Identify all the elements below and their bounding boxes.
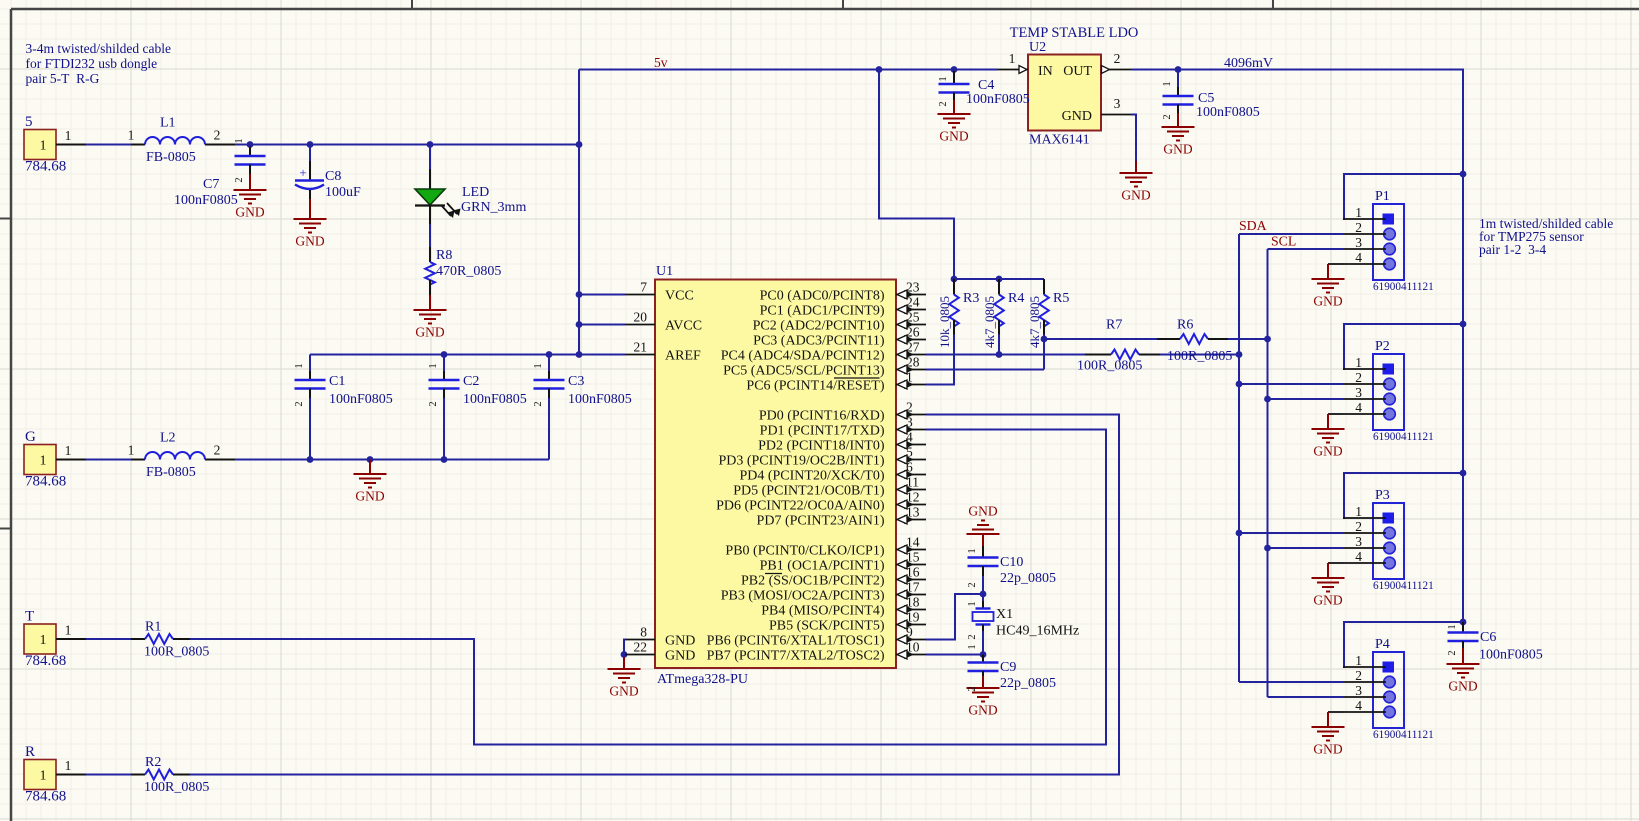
- svg-text:1: 1: [1355, 355, 1362, 370]
- U1 pin 25 PC2: [896, 324, 926, 326]
- svg-text:C7: C7: [203, 177, 219, 192]
- svg-text:1: 1: [1355, 653, 1362, 668]
- ground for C7: [234, 178, 267, 204]
- svg-text:100nF0805: 100nF0805: [1479, 648, 1543, 663]
- svg-text:16: 16: [906, 565, 920, 580]
- svg-text:2: 2: [1114, 51, 1121, 66]
- svg-text:PB6 (PCINT6/XTAL1/TOSC1): PB6 (PCINT6/XTAL1/TOSC1): [707, 634, 885, 649]
- svg-text:TEMP STABLE LDO: TEMP STABLE LDO: [1010, 25, 1139, 41]
- svg-text:4k7_0805: 4k7_0805: [982, 296, 997, 348]
- U1 pin 12 PD6: [896, 504, 926, 506]
- svg-text:GND: GND: [1313, 742, 1342, 757]
- svg-text:AVCC: AVCC: [665, 318, 702, 333]
- svg-text:4: 4: [906, 430, 913, 445]
- junction at 1463,174: [1460, 171, 1467, 178]
- capacitor C5 100nF0805: [1177, 87, 1179, 96]
- svg-text:22: 22: [634, 640, 648, 655]
- svg-text:OUT: OUT: [1063, 64, 1092, 79]
- svg-text:GRN_3mm: GRN_3mm: [461, 200, 526, 215]
- svg-text:4: 4: [1355, 400, 1362, 415]
- svg-text:PB3 (MOSI/OC2A/PCINT3): PB3 (MOSI/OC2A/PCINT3): [721, 589, 885, 604]
- wire G row ground rail: [235, 459, 549, 461]
- svg-text:24: 24: [906, 295, 920, 310]
- svg-text:R: R: [25, 744, 35, 760]
- junction at 579,294.5: [576, 291, 583, 298]
- svg-text:100uF: 100uF: [325, 185, 361, 200]
- junction at 999,354.5: [996, 351, 1003, 358]
- svg-text:2: 2: [1447, 650, 1458, 655]
- junction at 1463,473: [1460, 470, 1467, 477]
- svg-text:X1: X1: [996, 607, 1013, 622]
- wire G row to L2: [86, 459, 131, 461]
- wire SCL node to R6: [1043, 339, 1045, 370]
- svg-text:1: 1: [906, 370, 913, 385]
- svg-text:1: 1: [128, 443, 135, 458]
- resistor R4 4k7_0805: [998, 279, 1000, 295]
- U1 pin 26 PC3: [896, 339, 926, 341]
- U1 pin 28 PC5: [896, 369, 926, 371]
- ground for C4: [938, 102, 971, 128]
- wire C2 stubs: [443, 355, 445, 372]
- svg-text:R4: R4: [1008, 291, 1024, 306]
- svg-text:100R_0805: 100R_0805: [144, 645, 209, 660]
- svg-text:1: 1: [967, 644, 978, 649]
- junction at 954,279: [951, 276, 958, 283]
- svg-text:P2: P2: [1375, 339, 1390, 354]
- svg-text:L2: L2: [160, 431, 176, 446]
- U1 pin 21 AREF: [625, 354, 655, 356]
- ground for C5: [1162, 115, 1195, 141]
- svg-text:PD2 (PCINT18/INT0): PD2 (PCINT18/INT0): [758, 439, 885, 454]
- svg-text:1: 1: [533, 363, 544, 368]
- svg-text:784.68: 784.68: [25, 789, 66, 805]
- svg-text:R8: R8: [436, 248, 452, 263]
- wire 5v vertical riser x=579: [578, 70, 580, 355]
- svg-text:4: 4: [1355, 250, 1362, 265]
- svg-text:17: 17: [906, 580, 920, 595]
- svg-text:3: 3: [1355, 683, 1362, 698]
- junction at 430,144.5: [427, 141, 434, 148]
- wire VCC pin7: [579, 294, 625, 296]
- svg-text:470R_0805: 470R_0805: [436, 264, 501, 279]
- U1 pin 15 PB1: [896, 564, 926, 566]
- junction at 444,459.5: [441, 456, 448, 463]
- resistor R8 470R_0805: [429, 247, 431, 262]
- svg-text:784.68: 784.68: [25, 474, 66, 490]
- wire AVCC pin20: [579, 324, 625, 326]
- svg-text:+: +: [299, 165, 306, 180]
- connector P3 61900411121: [1373, 503, 1404, 579]
- svg-text:GND: GND: [1313, 444, 1342, 459]
- wire XTAL1 pin9 to crystal top node: [926, 594, 983, 640]
- junction at 250,144.5: [247, 141, 254, 148]
- svg-text:R7: R7: [1106, 318, 1122, 333]
- junction at 370,459.5: [367, 456, 374, 463]
- junction at 579,324.5: [576, 321, 583, 328]
- svg-text:3: 3: [1355, 235, 1362, 250]
- svg-text:28: 28: [906, 355, 920, 370]
- svg-text:R5: R5: [1053, 291, 1069, 306]
- U1 pin 8 GND: [625, 639, 655, 641]
- svg-text:C8: C8: [325, 169, 341, 184]
- resistor R5 4k7_0805: [1043, 279, 1045, 295]
- wire U2 GND pin3: [1131, 115, 1136, 166]
- U1 pin 2 PD0: [896, 414, 926, 416]
- junction at 579,354.5: [576, 351, 583, 358]
- wire R net: [86, 774, 131, 776]
- inductor L1: [131, 144, 145, 146]
- U1 pin 16 PB2: [896, 579, 926, 581]
- svg-text:G: G: [25, 429, 36, 445]
- svg-text:61900411121: 61900411121: [1373, 281, 1434, 293]
- U1 pin 22 GND: [625, 654, 655, 656]
- svg-text:MAX6141: MAX6141: [1029, 133, 1090, 148]
- overline RESET: [834, 377, 880, 379]
- svg-text:R6: R6: [1177, 318, 1193, 333]
- svg-text:5: 5: [906, 445, 913, 460]
- resistor R6 100R_0805: [1157, 338, 1180, 340]
- svg-text:5: 5: [25, 114, 33, 130]
- svg-text:AREF: AREF: [665, 348, 701, 363]
- wire SCL pin28: [926, 369, 1044, 371]
- svg-text:3: 3: [906, 415, 913, 430]
- svg-text:PD6 (PCINT22/OC0A/AIN0): PD6 (PCINT22/OC0A/AIN0): [716, 499, 885, 514]
- svg-text:PD7 (PCINT23/AIN1): PD7 (PCINT23/AIN1): [757, 514, 885, 529]
- U1 pin 3 PD1: [896, 429, 926, 431]
- connector P1 61900411121: [1373, 204, 1404, 280]
- svg-text:23: 23: [906, 280, 920, 295]
- junction at 444,354.5: [441, 351, 448, 358]
- svg-text:C4: C4: [978, 78, 994, 93]
- wire SCL vertical bus V2: [1267, 249, 1269, 697]
- svg-text:PC4 (ADC4/SDA/PCINT12): PC4 (ADC4/SDA/PCINT12): [721, 349, 885, 364]
- svg-text:T: T: [25, 609, 34, 625]
- svg-text:C5: C5: [1198, 91, 1214, 106]
- wire P1 pin1 loop: [1343, 174, 1463, 219]
- wire 4096mV rail: [1131, 70, 1463, 623]
- svg-text:1: 1: [234, 138, 245, 143]
- connector G: [24, 445, 56, 475]
- svg-text:25: 25: [906, 310, 920, 325]
- svg-text:14: 14: [906, 535, 920, 550]
- U1 pin 4 PD2: [896, 444, 926, 446]
- svg-text:SDA: SDA: [1239, 218, 1267, 233]
- wire XTAL2 pin10 to crystal bottom node: [926, 654, 983, 656]
- U1 pin 6 PD4: [896, 474, 926, 476]
- svg-text:61900411121: 61900411121: [1373, 729, 1434, 741]
- wire V1 to P2 pin2: [1239, 383, 1343, 385]
- svg-text:PB0 (PCINT0/CLKO/ICP1): PB0 (PCINT0/CLKO/ICP1): [725, 544, 884, 559]
- svg-text:2: 2: [214, 128, 221, 143]
- wire V1 to P1 pin2: [1239, 233, 1343, 235]
- svg-text:2: 2: [1355, 668, 1362, 683]
- svg-text:4096mV: 4096mV: [1224, 56, 1273, 71]
- svg-text:GND: GND: [1163, 142, 1192, 157]
- wire V2 to P3 pin3: [1268, 547, 1344, 549]
- svg-text:VCC: VCC: [665, 288, 694, 303]
- svg-text:2: 2: [294, 401, 305, 406]
- svg-text:1: 1: [65, 623, 72, 638]
- svg-text:GND: GND: [295, 234, 324, 249]
- svg-text:GND: GND: [665, 648, 695, 663]
- svg-text:GND: GND: [235, 205, 264, 220]
- wire V1 to P3 pin2: [1239, 532, 1343, 534]
- svg-text:1: 1: [40, 139, 47, 154]
- wire R3 bottom to PC6 pin 1: [926, 335, 954, 385]
- svg-text:12: 12: [906, 490, 920, 505]
- svg-text:2: 2: [967, 686, 978, 691]
- svg-text:C10: C10: [1000, 555, 1023, 570]
- svg-text:R3: R3: [963, 291, 979, 306]
- svg-text:4: 4: [1355, 698, 1362, 713]
- svg-text:C3: C3: [568, 374, 584, 389]
- junction at 1463,622: [1460, 619, 1467, 626]
- svg-text:GND: GND: [1062, 109, 1092, 124]
- svg-text:1: 1: [40, 633, 47, 648]
- svg-text:PC3 (ADC3/PCINT11): PC3 (ADC3/PCINT11): [753, 334, 885, 349]
- svg-text:GND: GND: [665, 633, 695, 648]
- svg-text:PB2 (SS/OC1B/PCINT2): PB2 (SS/OC1B/PCINT2): [741, 574, 885, 589]
- svg-text:GND: GND: [1121, 188, 1150, 203]
- svg-text:2: 2: [1355, 220, 1362, 235]
- wire V2 to P4 pin3: [1268, 696, 1344, 698]
- wire SDA vertical bus V1: [1238, 234, 1240, 682]
- svg-text:100nF0805: 100nF0805: [174, 193, 238, 208]
- svg-text:for FTDI232 usb dongle: for FTDI232 usb dongle: [26, 56, 158, 71]
- capacitor C2 100nF0805: [443, 371, 445, 380]
- U1 pin 9 PB6: [896, 639, 926, 641]
- wire SDA row pin27 to R7: [926, 354, 1085, 356]
- capacitor C1 100nF0805: [309, 371, 311, 380]
- svg-text:11: 11: [906, 475, 919, 490]
- svg-text:C6: C6: [1480, 630, 1496, 645]
- svg-text:100nF0805: 100nF0805: [463, 392, 527, 407]
- svg-text:2: 2: [1355, 370, 1362, 385]
- svg-text:2: 2: [1355, 519, 1362, 534]
- capacitor C6 100nF0805: [1462, 622, 1464, 633]
- U1 pin 11 PD5: [896, 489, 926, 491]
- U1 pin 20 AVCC: [625, 324, 655, 326]
- svg-text:1: 1: [65, 128, 72, 143]
- wire C5 stub: [1177, 70, 1179, 88]
- U1 pin 13 PD7: [896, 519, 926, 521]
- IC U2 MAX6141: [1028, 55, 1101, 131]
- svg-text:2: 2: [938, 101, 949, 106]
- capacitor C8 (polarized): [309, 161, 311, 181]
- svg-text:P1: P1: [1375, 189, 1390, 204]
- sheet border: [10, 9, 13, 821]
- junction at 954,69.5: [951, 66, 958, 73]
- svg-text:784.68: 784.68: [25, 159, 66, 175]
- connector 5: [24, 130, 56, 160]
- ground for U1 pins 8,22: [608, 657, 641, 683]
- capacitor C4 100nF0805: [953, 71, 955, 84]
- svg-text:3: 3: [1114, 96, 1121, 111]
- junction at 983,594: [980, 591, 987, 598]
- svg-text:1: 1: [65, 443, 72, 458]
- svg-text:100nF0805: 100nF0805: [329, 392, 393, 407]
- svg-text:2: 2: [906, 400, 913, 415]
- wire P4 pin1 loop: [1343, 622, 1463, 667]
- wire T net: [86, 638, 131, 640]
- wire P3 pin1 loop: [1343, 473, 1463, 518]
- svg-text:22p_0805: 22p_0805: [1000, 571, 1056, 586]
- svg-text:GND: GND: [968, 504, 997, 519]
- svg-text:PC5 (ADC5/SCL/PCINT13): PC5 (ADC5/SCL/PCINT13): [723, 364, 885, 379]
- svg-text:LED: LED: [462, 185, 489, 200]
- svg-text:pair 1-2 3-4: pair 1-2 3-4: [1479, 242, 1546, 257]
- capacitor C9 22p_0805: [982, 655, 984, 663]
- ground for C6: [1447, 652, 1480, 678]
- svg-text:13: 13: [906, 505, 920, 520]
- capacitor C10 22p_0805: [982, 546, 984, 558]
- U1 pin 18 PB4: [896, 609, 926, 611]
- wire C3 stubs: [548, 355, 550, 372]
- svg-text:GND: GND: [968, 703, 997, 718]
- U1 pin 19 PB5: [896, 624, 926, 626]
- svg-text:PD0 (PCINT16/RXD): PD0 (PCINT16/RXD): [759, 409, 885, 424]
- wire V2 to P2 pin3: [1268, 398, 1344, 400]
- svg-text:PB4 (MISO/PCINT4): PB4 (MISO/PCINT4): [761, 604, 885, 619]
- svg-text:GND: GND: [1448, 679, 1477, 694]
- svg-text:3-4m twisted/shilded cable: 3-4m twisted/shilded cable: [26, 41, 171, 56]
- svg-text:PD5 (PCINT21/OC0B/T1): PD5 (PCINT21/OC0B/T1): [733, 484, 885, 499]
- U1 pin 17 PB3: [896, 594, 926, 596]
- svg-text:4k7_0805: 4k7_0805: [1027, 296, 1042, 348]
- wire R4 bottom stub: [998, 335, 1000, 355]
- junction at 1267.5,399: [1264, 396, 1271, 403]
- svg-text:100nF0805: 100nF0805: [1196, 105, 1260, 120]
- junction at 983,654.5: [980, 651, 987, 658]
- U2 pin 1 IN: [998, 69, 1028, 71]
- svg-text:2: 2: [533, 401, 544, 406]
- svg-text:1: 1: [40, 454, 47, 469]
- svg-text:PD4 (PCINT20/XCK/T0): PD4 (PCINT20/XCK/T0): [739, 469, 884, 484]
- U1 pin 5 PD3: [896, 459, 926, 461]
- svg-text:9: 9: [906, 625, 913, 640]
- junction at 1267.5,548: [1264, 545, 1271, 552]
- ground for C8: [294, 207, 327, 233]
- ground for C1/C2/C3 rail: [369, 460, 371, 463]
- wire 5v branch down to pullup rail: [879, 70, 954, 280]
- svg-text:19: 19: [906, 610, 920, 625]
- svg-text:HC49_16MHz: HC49_16MHz: [996, 624, 1079, 639]
- connector P2 61900411121: [1373, 354, 1404, 430]
- svg-text:R2: R2: [145, 755, 161, 770]
- svg-text:1: 1: [1447, 624, 1458, 629]
- capacitor C3 100nF0805: [548, 371, 550, 380]
- svg-text:4: 4: [1355, 549, 1362, 564]
- svg-text:1: 1: [294, 363, 305, 368]
- svg-text:FB-0805: FB-0805: [146, 150, 196, 165]
- svg-text:pair 5-T R-G: pair 5-T R-G: [26, 71, 100, 86]
- svg-text:P3: P3: [1375, 488, 1390, 503]
- svg-text:1: 1: [938, 76, 949, 81]
- junction at 1239,533: [1236, 530, 1243, 537]
- wire SCL R6 to V2: [1208, 338, 1268, 340]
- wire 5v top rail: [579, 69, 998, 71]
- wire C1 stubs: [309, 355, 311, 372]
- svg-text:L1: L1: [160, 116, 176, 131]
- wire AREF cap rail: [310, 354, 625, 356]
- svg-text:100nF0805: 100nF0805: [568, 392, 632, 407]
- U1 pin 24 PC1: [896, 309, 926, 311]
- U2 pin 3 GND: [1101, 114, 1131, 116]
- svg-text:PB5 (SCK/PCINT5): PB5 (SCK/PCINT5): [769, 619, 885, 634]
- svg-text:FB-0805: FB-0805: [146, 465, 196, 480]
- junction at 1239,354.5: [1236, 351, 1243, 358]
- svg-text:100R_0805: 100R_0805: [144, 780, 209, 795]
- LED GRN_3mm: [429, 169, 431, 189]
- svg-text:P4: P4: [1375, 637, 1390, 652]
- svg-text:7: 7: [640, 280, 647, 295]
- junction at 1463,324: [1460, 321, 1467, 328]
- resistor R3 10k_0805: [953, 279, 955, 295]
- U1 pin 23 PC0: [896, 294, 926, 296]
- ground for C9: [967, 676, 1000, 702]
- svg-text:PB7 (PCINT7/XTAL2/TOSC2): PB7 (PCINT7/XTAL2/TOSC2): [707, 649, 885, 664]
- wire V1 to P4 pin2: [1239, 681, 1343, 683]
- svg-text:PC0 (ADC0/PCINT8): PC0 (ADC0/PCINT8): [760, 289, 885, 304]
- svg-text:R1: R1: [145, 620, 161, 635]
- svg-text:1: 1: [65, 758, 72, 773]
- svg-text:GND: GND: [415, 325, 444, 340]
- inductor L2: [131, 459, 145, 461]
- svg-text:SCL: SCL: [1271, 234, 1296, 249]
- U1 pin 7 VCC: [625, 294, 655, 296]
- svg-text:1: 1: [428, 363, 439, 368]
- ground above C10 (inverted): [967, 521, 1000, 547]
- svg-text:GND: GND: [355, 489, 384, 504]
- IC U1 ATmega328-PU: [655, 280, 896, 669]
- svg-text:1: 1: [40, 769, 47, 784]
- U1 pin 1 PC6: [896, 384, 926, 386]
- wire 5v row after L1: [235, 144, 579, 146]
- svg-text:PD1 (PCINT17/TXD): PD1 (PCINT17/TXD): [760, 424, 885, 439]
- svg-text:GND: GND: [939, 129, 968, 144]
- svg-text:21: 21: [634, 340, 648, 355]
- wire U1 GND pins 8,22: [624, 640, 625, 658]
- junction at 310,459.5: [307, 456, 314, 463]
- svg-text:PC6 (PCINT14/RESET): PC6 (PCINT14/RESET): [746, 379, 884, 394]
- U2 pin 2 OUT: [1101, 69, 1131, 71]
- svg-text:18: 18: [906, 595, 920, 610]
- svg-text:1: 1: [1162, 81, 1173, 86]
- svg-text:784.68: 784.68: [25, 653, 66, 669]
- svg-text:GND: GND: [1313, 593, 1342, 608]
- wire P2 pin1 loop: [1343, 324, 1463, 369]
- wire 5-row from connector 5 to L1: [86, 144, 131, 146]
- connector R: [24, 760, 56, 790]
- svg-text:2: 2: [214, 443, 221, 458]
- svg-text:3: 3: [1355, 534, 1362, 549]
- resistor R7 100R_0805: [1085, 354, 1111, 356]
- svg-text:100nF0805: 100nF0805: [966, 92, 1030, 107]
- svg-text:GND: GND: [609, 684, 638, 699]
- svg-text:U1: U1: [656, 264, 673, 279]
- svg-text:2: 2: [1162, 114, 1173, 119]
- svg-text:1: 1: [1355, 504, 1362, 519]
- junction at 1267.5,339: [1264, 336, 1271, 343]
- svg-text:8: 8: [640, 625, 647, 640]
- svg-text:1: 1: [128, 128, 135, 143]
- wire LED stubs: [429, 145, 431, 170]
- svg-text:GND: GND: [1313, 294, 1342, 309]
- svg-text:20: 20: [634, 310, 648, 325]
- junction at 999,279: [996, 276, 1003, 283]
- svg-text:27: 27: [906, 340, 920, 355]
- junction at 1178,69.5: [1175, 66, 1182, 73]
